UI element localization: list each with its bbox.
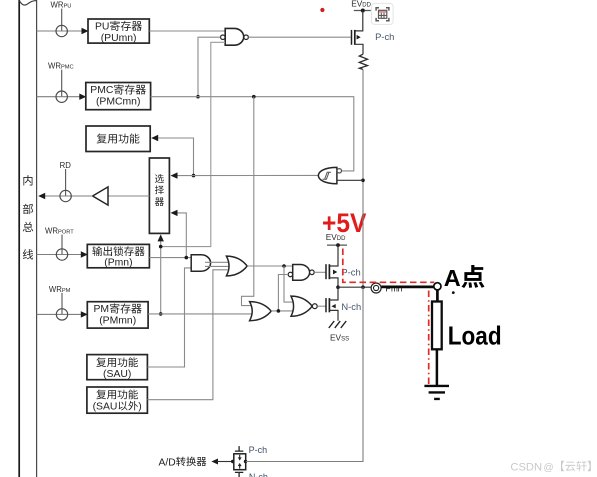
svg-text:(SAU: (SAU	[93, 402, 118, 413]
wire node A (thick)	[381, 286, 437, 289]
EVDD junction dot (top)	[361, 9, 365, 13]
svg-text:SS: SS	[341, 337, 349, 343]
register PU寄存器 (PUmn)	[88, 19, 149, 43]
arrow into selector bottom	[158, 234, 164, 241]
transistor Q3 channel bar	[328, 298, 330, 312]
wire EVDD to Q2 source	[330, 245, 338, 266]
junction analog switch right	[244, 460, 247, 463]
svg-text:CSDN: CSDN	[510, 461, 542, 473]
label 复用功能 SAU以外	[96, 389, 138, 399]
svg-text:P-ch: P-ch	[249, 445, 268, 455]
transistor Q1 pull-up P-ch gate bar	[351, 30, 353, 45]
svg-text:WR: WR	[45, 227, 58, 236]
nand U1 input bubble (PMC)	[221, 35, 226, 40]
arrow into PMC register	[79, 94, 86, 100]
svg-text:WR: WR	[51, 1, 64, 10]
wire Q3 source to EVSS	[329, 310, 338, 320]
wire Pmn latch to selector	[177, 213, 186, 258]
wire resistor to pin net	[362, 69, 364, 180]
register PM寄存器 (PMmn)	[87, 302, 148, 328]
junction schmitt input	[361, 179, 365, 183]
svg-text:PORT: PORT	[58, 230, 74, 236]
svg-text:PMC: PMC	[90, 85, 114, 96]
wire input buffer to 复用功能	[158, 138, 194, 176]
wire Pmn latch to AND A1	[149, 257, 191, 259]
analog switch P-ch gate	[235, 446, 243, 451]
wire Q3 drain to pin node	[329, 287, 338, 300]
EVDD supply stub (top)	[354, 10, 371, 12]
wire PMC to U1 inverted input	[198, 37, 221, 96]
junction PMmn row	[159, 312, 163, 316]
arrow into selector input 1	[171, 172, 178, 178]
WRPM strobe stem	[61, 293, 63, 315]
svg-text:PM: PM	[94, 304, 110, 315]
nand U1 output bubble	[244, 35, 249, 40]
analog switch up arrow	[238, 463, 242, 469]
wire selector to read buffer	[108, 195, 149, 197]
RD strobe stem	[65, 169, 67, 196]
nor U3 output bubble	[312, 304, 317, 309]
WRPM gating circle	[56, 309, 67, 320]
label 复用功能 (upper)	[97, 133, 140, 143]
ground symbol (load)	[424, 386, 449, 399]
internal bus right rail	[36, 0, 38, 477]
nand U2 output bubble	[310, 270, 315, 275]
wire OR2 to U2 inverted input	[278, 275, 288, 311]
wire schmitt input	[337, 179, 363, 181]
schmitt enable bubble	[337, 169, 341, 173]
junction pin vertical	[361, 285, 365, 289]
stray ink dot	[452, 291, 455, 294]
junction PMC/U1	[196, 95, 200, 99]
svg-text:PU: PU	[64, 4, 72, 10]
annotation +5V	[322, 208, 367, 238]
label P-ch (driver)	[341, 266, 360, 277]
or gate O1	[226, 256, 247, 276]
svg-text:N-ch: N-ch	[341, 301, 361, 312]
label (PMmn)	[99, 316, 136, 327]
wire buffer output to selector	[177, 174, 319, 176]
register PMC寄存器 (PMCmn)	[86, 83, 151, 110]
red marker dot	[320, 8, 324, 12]
transistor Q3 arrow	[331, 304, 335, 308]
svg-text:DD: DD	[337, 236, 346, 242]
wire pin vertical net	[362, 180, 364, 287]
label (SAU)	[103, 369, 131, 380]
svg-text:PU: PU	[95, 22, 109, 33]
RD gating circle	[60, 190, 71, 201]
wire bus to PMC register	[37, 96, 80, 98]
arrow into PU register	[82, 28, 89, 34]
svg-text:@: @	[544, 462, 554, 473]
image placeholder icon card	[372, 3, 394, 24]
transistor Q3 N-ch gate bar	[325, 298, 327, 312]
signal label WRPMC	[48, 62, 74, 71]
analog switch down arrow	[238, 455, 242, 461]
nand U2 (P-ch driver)	[293, 265, 310, 281]
wire load to ground	[436, 349, 439, 385]
arrow into A/D converter	[211, 459, 218, 465]
svg-text:(PMCmn): (PMCmn)	[96, 96, 140, 107]
svg-text:A: A	[444, 265, 461, 291]
bus top break squiggle	[19, 0, 36, 5]
label Pmn	[386, 284, 403, 293]
label (PUmn)	[101, 33, 137, 44]
label PU寄存器	[95, 21, 142, 33]
signal label WRPU	[51, 1, 72, 10]
latch 输出锁存器 (Pmn)	[87, 244, 149, 267]
wire O1 to NOR U3 upper input	[284, 266, 294, 302]
svg-text:PMC: PMC	[61, 65, 74, 71]
label (Pmn)	[104, 258, 132, 269]
nand U1 (pull-up control)	[225, 28, 244, 45]
WRPU strobe stem	[61, 9, 63, 31]
label 复用功能 SAU	[96, 357, 138, 367]
svg-text:(SAU): (SAU)	[103, 369, 131, 380]
wire EVDD to Q1 source	[355, 11, 363, 31]
junction PMC to OR2 branch	[252, 95, 256, 99]
junction buffer output	[192, 174, 196, 178]
read buffer triangle	[93, 187, 108, 205]
nand U2 input bubble	[288, 272, 292, 276]
arrow into bus (read)	[38, 193, 45, 199]
WRPMC gating circle	[56, 91, 67, 102]
power label EVss	[330, 333, 349, 343]
svg-text:WR: WR	[49, 285, 62, 294]
junction O1 output	[282, 264, 286, 268]
svg-text:DD: DD	[362, 2, 371, 8]
icon table with red header	[379, 10, 387, 18]
red dashed path EVDD to node A	[343, 249, 434, 283]
wire U1 output to pull-up P-ch gate	[248, 36, 350, 38]
wire PMC to OR2 upper input	[242, 97, 254, 306]
arrow into PM register	[81, 311, 88, 317]
svg-text:N-ch: N-ch	[249, 472, 268, 477]
block 复用功能 (SAU以外)	[87, 387, 147, 413]
WRPORT gating circle	[56, 249, 67, 260]
svg-text:A/D: A/D	[159, 457, 176, 468]
junction analog switch left	[231, 460, 234, 463]
junction Pmn latch output	[185, 256, 189, 260]
wire bus to PU register	[37, 30, 82, 32]
and gate A1	[191, 255, 210, 272]
EVDD supply stub (driver)	[327, 244, 347, 246]
wire pin net to analog switch	[246, 287, 363, 461]
wire PMmn to U1 third input	[162, 42, 226, 246]
wire O2 output to NOR U3	[271, 310, 294, 312]
wire node A to load	[436, 290, 439, 302]
svg-text:(PUmn): (PUmn)	[101, 33, 137, 44]
ground EVSS hatch	[329, 321, 346, 328]
wire A1 to OR O1 (double connector)	[205, 262, 229, 266]
signal label RD	[60, 161, 72, 170]
power label EVDD (driver)	[326, 232, 346, 242]
pull-up resistor	[359, 54, 367, 69]
svg-text:RD: RD	[60, 161, 72, 170]
red dash-dot path node A to ground	[428, 291, 430, 386]
analog switch N-ch gate	[235, 472, 243, 477]
label N-ch (driver)	[341, 301, 361, 312]
label A点	[444, 265, 485, 291]
svg-text:EV: EV	[351, 0, 363, 8]
label P-ch (pull-up)	[375, 31, 394, 42]
wire bus to output latch	[37, 254, 82, 256]
svg-text:EV: EV	[330, 333, 342, 343]
power label EVDD (top)	[351, 0, 371, 8]
analog switch body	[234, 454, 246, 470]
nor gate U3 (N-ch driver)	[291, 296, 312, 316]
block 复用功能 (SAU)	[87, 355, 147, 380]
label A/D转换器	[159, 457, 207, 469]
schmitt hysteresis glyph	[323, 172, 331, 179]
arrow into 复用功能	[151, 135, 158, 141]
selector 选择器	[149, 158, 169, 233]
icon corner brackets	[376, 8, 389, 21]
svg-text:): )	[138, 402, 141, 413]
transistor Q1 channel bar	[354, 30, 356, 45]
internal bus 内部总线 left rail	[18, 0, 20, 477]
svg-text:P-ch: P-ch	[341, 266, 360, 277]
transistor Q1 arrow	[357, 35, 361, 40]
WRPU gating circle	[56, 25, 67, 36]
junction O2 output	[277, 309, 281, 313]
label N-ch (switch)	[249, 472, 268, 477]
WRPMC strobe stem	[61, 70, 63, 97]
node A circle	[434, 283, 441, 290]
wire read buffer to bus	[44, 195, 93, 197]
wire Q2 drain to pin node	[329, 278, 338, 287]
block 复用功能 (upper)	[86, 126, 150, 152]
svg-text:EV: EV	[326, 232, 338, 242]
wire PM register to OR2	[148, 313, 253, 315]
label (PMCmn)	[96, 96, 140, 107]
label Load	[448, 323, 502, 351]
junction pin node (driver)	[336, 285, 340, 289]
or gate O2	[250, 302, 272, 321]
EVDD junction dot (driver)	[336, 243, 340, 247]
arrow into selector input 2	[171, 210, 178, 216]
wire PMC output net	[151, 97, 354, 171]
transistor Q2 P-ch gate bar	[325, 264, 327, 279]
label P-ch (switch)	[249, 445, 268, 455]
wire SAU以外 to OR O1 input	[147, 270, 227, 400]
label (SAU以外)	[93, 401, 142, 413]
arrow into output latch	[81, 251, 88, 257]
wire PU register to NAND U1	[149, 30, 225, 32]
wire SAU to AND A1 input	[147, 268, 191, 367]
wire O1 output to NAND U2	[247, 265, 293, 267]
watermark CSDN@【云轩】	[510, 461, 590, 474]
svg-text:Load: Load	[448, 323, 502, 351]
label PMC寄存器	[90, 84, 145, 96]
label PM寄存器	[94, 303, 142, 315]
svg-text:(PMmn): (PMmn)	[99, 316, 136, 327]
wire U2 output to P-ch gate	[314, 271, 326, 273]
junction PMmn branch	[159, 245, 163, 249]
wire Q1 drain to resistor	[355, 44, 363, 54]
pad symbol Pmn (double circle)	[371, 283, 381, 293]
label 输出锁存器	[92, 246, 144, 256]
WRPORT strobe stem	[61, 235, 63, 255]
transistor Q2 channel bar	[328, 264, 330, 279]
signal label WRPORT	[45, 227, 74, 236]
load resistor rectangle	[432, 302, 442, 350]
schmitt trigger input buffer	[318, 167, 337, 183]
wire U3 output to N-ch gate	[317, 305, 326, 307]
transistor Q2 arrow	[333, 270, 337, 275]
label 选择器	[155, 174, 164, 206]
svg-text:(Pmn): (Pmn)	[104, 258, 132, 269]
svg-text:P-ch: P-ch	[375, 31, 394, 42]
svg-text:WR: WR	[48, 62, 61, 71]
svg-text:PM: PM	[62, 288, 71, 294]
wire PMmn to selector bottom	[160, 241, 162, 314]
signal label WRPM	[49, 285, 71, 294]
wire bus to PM register	[37, 313, 82, 315]
wire pin node to pad	[338, 286, 371, 288]
wire analog switch to A/D	[217, 461, 233, 463]
bus label 内部总线	[23, 175, 33, 259]
